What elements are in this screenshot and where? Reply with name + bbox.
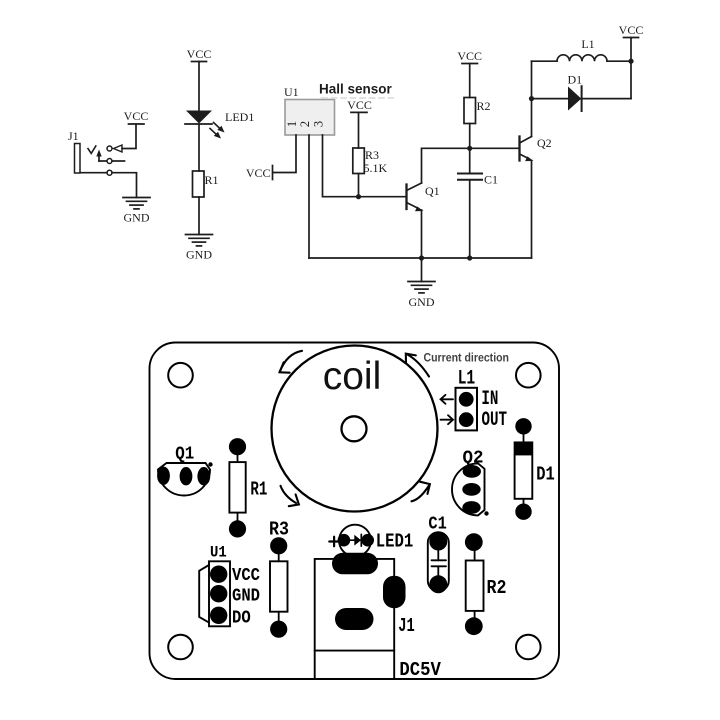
R3 pad top: [270, 537, 287, 561]
svg-text:VCC: VCC: [347, 98, 372, 112]
node VCC (top right): [619, 23, 644, 61]
wire R3 to junction: [358, 174, 360, 197]
R1 pad bottom: [229, 513, 246, 538]
transistor Q1: [407, 183, 424, 211]
svg-text:2: 2: [298, 121, 312, 127]
Q1 orientation dot: [208, 462, 212, 466]
svg-text:Q1: Q1: [425, 184, 440, 198]
svg-text:Q1: Q1: [175, 444, 194, 465]
svg-text:R2: R2: [477, 99, 491, 113]
svg-text:3: 3: [312, 121, 326, 127]
wire pin3 to Q1 base: [323, 135, 407, 197]
Q1 pad 2: [180, 467, 193, 485]
wire junction to Q2 base: [470, 147, 520, 149]
svg-text:GND: GND: [186, 248, 212, 262]
mounting hole top-left: [168, 363, 193, 388]
svg-text:L1: L1: [581, 37, 594, 51]
mounting hole bottom-left: [168, 635, 193, 660]
svg-text:J1: J1: [68, 129, 79, 143]
wire R1 to GND: [198, 197, 200, 235]
wire LED cathode to R1: [198, 124, 200, 171]
wire rail to ground symbol: [421, 258, 423, 282]
coil center hole: [342, 416, 367, 441]
hall sensor U1 body: [285, 100, 335, 136]
U1 pad GND: [210, 585, 227, 602]
svg-text:U1: U1: [210, 544, 227, 562]
connector J1 jack body: [75, 144, 81, 174]
svg-text:DO: DO: [232, 608, 251, 629]
svg-text:VCC: VCC: [187, 47, 212, 61]
R2 pad bottom: [465, 611, 483, 635]
svg-text:D1: D1: [568, 73, 583, 87]
R3 pad bottom: [270, 612, 287, 638]
J1 tip contact circle: [107, 146, 112, 151]
LED1 diode mark: [349, 534, 361, 546]
coil arrow current direction: [406, 354, 429, 377]
label + (pcb): [329, 537, 339, 547]
svg-text:Q2: Q2: [537, 136, 552, 150]
svg-text:VCC: VCC: [619, 23, 644, 37]
svg-text:GND: GND: [124, 211, 150, 225]
node junction collector/D1: [529, 96, 534, 101]
wire Q1 collector: [422, 148, 470, 183]
J1 tip contact open arrow: [114, 145, 123, 152]
U1 chamfered side: [199, 565, 209, 623]
svg-text:L1: L1: [458, 367, 476, 390]
transistor Q2: [520, 137, 534, 162]
L1 pad IN: [459, 392, 474, 407]
svg-text:VCC: VCC: [457, 49, 482, 63]
node junction rail/Q1: [419, 255, 424, 260]
C1 symbol: [432, 549, 447, 577]
J1 pad middle: [335, 608, 374, 630]
D1 cathode band: [515, 442, 533, 455]
C1 pad bottom: [429, 575, 447, 593]
svg-text:R2: R2: [487, 577, 507, 599]
resistor R3 (pcb) body: [270, 561, 288, 611]
svg-text:Current direction: Current direction: [424, 351, 510, 365]
svg-text:LED1: LED1: [376, 531, 414, 553]
LED1 (pcb) outline: [339, 525, 371, 557]
Q1 pad 3: [197, 467, 210, 485]
J1 sleeve contact circle: [107, 170, 112, 175]
svg-text:GND: GND: [232, 586, 260, 607]
svg-text:R3: R3: [365, 148, 379, 162]
PCB board outline: [150, 343, 560, 680]
node junction rail/C1: [467, 255, 472, 260]
J1 pad right: [383, 576, 406, 609]
node VCC (R3): [347, 98, 372, 112]
wire VCC to LED anode: [198, 62, 200, 111]
svg-text:R1: R1: [205, 173, 219, 187]
transistor Q1 (pcb) outline: [158, 463, 210, 496]
J1 switch arrow: [96, 150, 101, 162]
coil arrow bottom-right: [412, 482, 430, 502]
svg-text:D1: D1: [536, 464, 555, 486]
IC U1 (pcb) body: [209, 561, 230, 626]
svg-text:Q2: Q2: [463, 448, 484, 469]
ground (J1): [123, 198, 150, 225]
wire pin2 to ground rail: [308, 135, 310, 258]
resistor R1: [193, 171, 205, 197]
ground rail: [309, 257, 532, 259]
transistor Q2 (pcb) outline: [452, 463, 485, 515]
ground (rail): [408, 282, 435, 310]
node junction R3/base: [356, 194, 361, 199]
svg-text:OUT: OUT: [482, 409, 508, 432]
node VCC (R2): [457, 49, 482, 64]
svg-text:LED1: LED1: [225, 110, 254, 124]
wire VCC to R2: [469, 64, 471, 98]
svg-text:VCC: VCC: [232, 565, 260, 586]
wire Q1 emitter to rail: [421, 210, 423, 258]
node VCC (pin1): [246, 166, 273, 181]
diode D1: [532, 86, 632, 111]
arrow OUT: [441, 415, 454, 424]
wire D1 to VCC node: [630, 61, 632, 98]
Q1 pad 1: [157, 467, 170, 485]
wire VCC to R3: [358, 112, 360, 148]
svg-text:coil: coil: [323, 355, 382, 398]
L1 pad OUT: [459, 412, 474, 427]
Q2 pad 3: [462, 501, 480, 514]
U1 pad VCC: [210, 566, 227, 583]
svg-text:DC5V: DC5V: [399, 659, 441, 681]
svg-text:Hall sensor: Hall sensor: [319, 82, 393, 97]
svg-text:VCC: VCC: [246, 166, 271, 180]
svg-text:J1: J1: [398, 615, 415, 637]
svg-text:IN: IN: [481, 388, 498, 411]
power jack J1 (pcb) outline: [315, 559, 395, 679]
wire pin1 to VCC: [273, 135, 296, 173]
svg-text:5.1K: 5.1K: [364, 161, 388, 175]
LED LED1: [185, 111, 225, 139]
ground (LED branch): [186, 235, 213, 262]
wire VCC to J1 tip contact: [122, 124, 136, 149]
Q2 pad 1: [463, 465, 481, 478]
J1 switch lever: [88, 146, 96, 153]
mounting hole top-right: [516, 363, 541, 388]
svg-text:C1: C1: [428, 514, 447, 534]
Q2 pad 2: [462, 483, 480, 496]
svg-text:R3: R3: [269, 518, 289, 540]
C1 pad top: [429, 533, 447, 551]
wire Q2 emitter to rail: [531, 161, 533, 259]
node VCC (LED branch): [187, 47, 212, 62]
wire C1 to rail: [469, 180, 471, 258]
diode D1 (pcb) body: [515, 442, 533, 498]
node VCC (J1 branch): [124, 109, 149, 124]
Q2 orientation dot: [484, 511, 488, 515]
D1 pad bottom: [515, 499, 531, 520]
resistor R1 (pcb) body: [229, 462, 245, 512]
capacitor C1 (pcb) outline: [428, 532, 449, 591]
svg-text:U1: U1: [284, 85, 299, 99]
arrow IN: [441, 395, 454, 404]
wire Q2 collector up: [531, 61, 533, 136]
L1 connector outline: [456, 388, 478, 431]
wire R2 to junction: [469, 124, 471, 149]
LED1 pad anode: [338, 534, 351, 547]
svg-text:R1: R1: [250, 479, 267, 501]
R1 pad top: [229, 438, 246, 462]
wire switch to ring contact: [99, 160, 107, 162]
svg-text:C1: C1: [484, 173, 498, 187]
J1 ring contact circle: [107, 159, 112, 164]
mounting hole bottom-right: [516, 635, 541, 660]
coil arrow top-left: [280, 351, 302, 373]
U1 pad DO: [210, 607, 227, 624]
inductor L1: [532, 55, 632, 61]
resistor R2 (pcb) body: [466, 561, 484, 611]
J1 pad top: [332, 553, 378, 575]
coil outline: [272, 346, 438, 512]
node junction L1/VCC: [628, 59, 633, 64]
resistor R2: [464, 98, 476, 124]
wire junction to C1: [469, 148, 471, 173]
LED1 pad cathode: [361, 534, 374, 547]
node junction R2/C1/base: [467, 146, 472, 151]
svg-text:1: 1: [285, 121, 299, 127]
R2 pad top: [465, 533, 483, 560]
resistor R3: [353, 148, 365, 174]
coil arrow bottom-left: [281, 486, 299, 506]
svg-text:VCC: VCC: [124, 109, 149, 123]
wire ring contact stub: [112, 160, 125, 162]
wire J1 sleeve to GND: [80, 173, 137, 198]
capacitor C1: [458, 174, 482, 180]
svg-text:GND: GND: [409, 295, 435, 309]
D1 pad top: [515, 418, 531, 442]
